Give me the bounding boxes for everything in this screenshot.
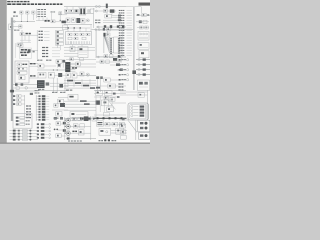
- ignition coil T1: [80, 8, 86, 15]
- lamp row 2: [10, 132, 39, 134]
- label dark: [72, 67, 77, 69]
- fuse f5: [68, 37, 72, 40]
- resistor pack RP1: [38, 72, 46, 78]
- legend separator pair: [133, 7, 134, 90]
- wire main feed: [12, 21, 36, 23]
- pin column line: [145, 105, 147, 119]
- fuse f2: [74, 33, 78, 36]
- wire: [120, 94, 147, 96]
- wire bus: [94, 10, 116, 12]
- motor M2: [64, 124, 70, 128]
- resistor row: [137, 26, 149, 29]
- connector row CN2: [39, 34, 50, 35]
- arrow node: [10, 90, 14, 93]
- wire: [112, 14, 119, 16]
- wire: [103, 22, 121, 24]
- wire: [59, 63, 61, 67]
- pin row P2: [131, 109, 144, 111]
- wire: [70, 132, 91, 134]
- junction block JB2: [66, 32, 92, 45]
- relay RL1: [13, 95, 25, 98]
- switch d: [19, 76, 25, 80]
- mark: [113, 93, 116, 95]
- left gray margin: [0, 0, 7, 143]
- wire: [95, 96, 97, 117]
- wire: [46, 18, 48, 21]
- relay: [118, 58, 122, 61]
- relay box RB1: [138, 32, 149, 41]
- node D: [80, 118, 84, 120]
- wire: [85, 28, 87, 32]
- mark: [60, 117, 63, 120]
- wire: [35, 95, 37, 121]
- wire: [65, 27, 90, 29]
- label dark: [30, 63, 36, 64]
- switch S2: [66, 18, 70, 22]
- mark: [33, 51, 35, 53]
- wire: [61, 135, 70, 137]
- relay K8: [104, 55, 108, 58]
- wire: [24, 35, 26, 40]
- terminal block TB2: [56, 35, 64, 38]
- wire: [20, 14, 22, 22]
- label: [37, 60, 51, 61]
- relay RL3: [13, 103, 25, 106]
- connector: [95, 10, 97, 12]
- wire: [94, 96, 120, 98]
- label dark: [72, 131, 77, 133]
- label: [14, 30, 19, 31]
- wire: [111, 13, 113, 15]
- wire bus: [77, 74, 96, 76]
- relay K7b: [106, 33, 110, 36]
- fuse row T4: [36, 103, 49, 105]
- wire: [147, 90, 149, 120]
- blower resistor R11: [78, 47, 88, 58]
- wire: [13, 87, 38, 89]
- wire: [58, 14, 67, 16]
- enclosure frame: [96, 30, 123, 56]
- terminal block TB3: [56, 39, 64, 42]
- sensor: [108, 84, 116, 88]
- wire: [66, 58, 96, 60]
- label: [38, 89, 44, 90]
- terminal block TB1: [56, 31, 64, 34]
- connector row CN3: [39, 37, 50, 38]
- node E: [87, 118, 91, 120]
- wire: [90, 8, 95, 10]
- label row: [42, 53, 60, 54]
- panel row a: [16, 116, 30, 118]
- relay: [78, 117, 82, 121]
- fan lines: [104, 37, 109, 53]
- sensor: [80, 72, 84, 76]
- wire: [81, 45, 83, 47]
- wire: [135, 120, 137, 140]
- wire: [106, 13, 108, 15]
- pin mark: [103, 28, 105, 31]
- socket row 2: [140, 127, 148, 130]
- label: [22, 64, 27, 65]
- relay K3: [75, 9, 78, 13]
- mark: [58, 64, 60, 67]
- splice segment: [96, 87, 100, 89]
- relay R3: [32, 11, 35, 14]
- pin fan: [70, 63, 75, 71]
- wire: [73, 79, 75, 87]
- wire: [94, 92, 126, 94]
- bus node 4: [115, 117, 117, 119]
- terminal block TB4: [56, 42, 64, 45]
- wire: [26, 14, 28, 22]
- harness diagonal: [128, 120, 138, 133]
- wire: [110, 64, 126, 66]
- lamp row 4: [10, 138, 39, 140]
- wire: [72, 7, 74, 10]
- label dark pair: [45, 20, 50, 22]
- terminal box: [103, 113, 109, 116]
- wire: [52, 78, 54, 92]
- ECU U1: [65, 62, 70, 72]
- wire: [103, 123, 126, 125]
- label row: [42, 50, 60, 51]
- fuse row F11: [37, 127, 51, 129]
- relay K4: [88, 10, 91, 13]
- resistor pack RP2: [48, 72, 54, 78]
- wire: [29, 77, 38, 79]
- wire bus: [66, 138, 96, 140]
- wire: [32, 14, 34, 20]
- capacitor C5: [16, 87, 19, 90]
- lamp row 3: [10, 135, 39, 137]
- mark: [63, 129, 66, 132]
- label battery: [13, 16, 18, 17]
- sensor SN0: [19, 44, 23, 47]
- resistor R4: [59, 12, 62, 14]
- pin mark: [113, 58, 117, 61]
- connector row CN1: [39, 31, 50, 32]
- wire bus: [64, 118, 96, 120]
- legend rows: [26, 105, 31, 118]
- trunk row 2: [136, 63, 150, 65]
- wire: [59, 45, 61, 50]
- bus node 1: [97, 117, 99, 119]
- relay RM3: [119, 122, 124, 126]
- wire: [64, 85, 96, 87]
- relay: [58, 99, 64, 103]
- wire: [20, 39, 31, 41]
- pressure switch S9: [116, 128, 124, 134]
- mark: [54, 117, 57, 120]
- wire: [42, 18, 44, 21]
- fuse f4: [86, 33, 90, 36]
- noise filter NF1: [138, 93, 144, 97]
- wire: [78, 7, 80, 9]
- page bottom shadow: [0, 143, 150, 144]
- bottom gray margin: [0, 143, 150, 150]
- fuse row T8: [36, 114, 49, 116]
- relay R1: [20, 11, 23, 14]
- wire: [62, 63, 64, 67]
- splice: [21, 83, 24, 85]
- wire: [112, 102, 126, 104]
- relay RC0: [70, 58, 73, 61]
- gauge: [86, 73, 89, 76]
- relay: [54, 104, 58, 108]
- gauge: [25, 87, 28, 90]
- wire: [66, 7, 68, 10]
- junction: [27, 21, 28, 22]
- wire: [73, 28, 75, 32]
- wire: [61, 123, 70, 125]
- socket row 3: [140, 134, 148, 137]
- fuse row F14: [37, 137, 51, 139]
- footer text left: [68, 140, 82, 141]
- wire bus: [37, 90, 68, 92]
- label dark: [30, 75, 36, 76]
- junction box J1: [9, 24, 13, 30]
- fuse row T3: [36, 100, 49, 102]
- wire: [32, 49, 39, 51]
- wire: [54, 74, 68, 76]
- wire: [64, 55, 78, 57]
- wire: [24, 34, 38, 36]
- splice segment: [75, 82, 81, 84]
- bus node 3: [109, 117, 111, 119]
- junction block dark: [110, 9, 115, 12]
- title line 1: [7, 1, 29, 2]
- relay RM1: [105, 122, 110, 126]
- bus node 5: [121, 117, 123, 119]
- wire: [126, 6, 141, 8]
- trunk row 1: [136, 58, 150, 60]
- node A: [60, 20, 61, 21]
- relay: [56, 122, 61, 126]
- wire: [64, 109, 96, 111]
- relay K7: [107, 28, 111, 31]
- capacitor C9: [46, 82, 50, 85]
- wire: [64, 103, 96, 105]
- legend rows: [119, 59, 129, 81]
- splice: [74, 27, 76, 29]
- relay: [56, 112, 62, 116]
- fuse row F13: [37, 133, 51, 135]
- wire: [107, 96, 109, 107]
- motor block M4: [68, 94, 78, 100]
- wire: [56, 63, 58, 67]
- wire color table: [37, 9, 46, 19]
- splice block: [116, 63, 120, 66]
- fuse row T9: [36, 116, 49, 118]
- wire: [24, 95, 26, 118]
- thermo switch TS1: [20, 33, 24, 36]
- trunk row 4: [136, 73, 150, 75]
- motor M1: [64, 118, 70, 122]
- wire: [50, 82, 68, 84]
- wire: [111, 129, 127, 131]
- wire bus: [65, 13, 94, 15]
- wire: [36, 20, 44, 22]
- splice: [68, 27, 70, 29]
- wire bus top-left extension: [64, 6, 94, 8]
- power transistor Q1: [37, 80, 45, 88]
- connector CN10: [70, 112, 88, 118]
- wire bus: [13, 84, 38, 86]
- wire: [111, 132, 127, 134]
- wire: [51, 13, 53, 20]
- switch S4: [81, 19, 85, 23]
- table note: [51, 11, 56, 12]
- wire: [96, 61, 122, 63]
- switch a: [17, 63, 21, 66]
- wire: [29, 65, 38, 67]
- wire: [64, 82, 96, 84]
- junction box JB3: [138, 80, 150, 91]
- fuse row T1: [36, 95, 49, 97]
- mark: [119, 118, 128, 120]
- pin hatch: [67, 41, 89, 44]
- pin row P1: [131, 106, 144, 108]
- mark: [62, 60, 65, 63]
- resistor R10: [70, 47, 75, 52]
- wire: [80, 63, 96, 65]
- connector dots: [54, 129, 58, 131]
- resistor R20: [73, 124, 78, 128]
- wire: [93, 8, 95, 28]
- label dark: [26, 33, 31, 35]
- wire: [94, 114, 126, 116]
- wire: [140, 7, 142, 14]
- fusible link FL1: [14, 11, 16, 13]
- relay RL2: [13, 99, 25, 102]
- wire: [103, 97, 105, 112]
- lamp row 1: [10, 129, 39, 131]
- pin row P3: [131, 112, 144, 114]
- sensor SN7: [121, 135, 127, 139]
- capacitor C1: [19, 25, 22, 28]
- splice segment: [90, 87, 95, 89]
- header index tab: [139, 3, 151, 6]
- splice segment: [84, 103, 90, 105]
- terminal: [118, 17, 121, 19]
- wire: [56, 78, 58, 92]
- fuse F2: [106, 4, 108, 9]
- wire: [99, 96, 101, 112]
- mark: [30, 93, 33, 95]
- wire: [70, 119, 91, 121]
- wire: [50, 85, 68, 87]
- wire: [20, 41, 31, 43]
- splice: [80, 27, 82, 29]
- wire: [117, 69, 126, 71]
- footer text mid: [99, 139, 117, 141]
- fuse f6: [74, 37, 78, 40]
- cluster frame: [19, 48, 31, 58]
- switch row c: [17, 71, 27, 74]
- relay: [100, 60, 104, 63]
- label: [66, 90, 72, 91]
- ground bus: [93, 117, 127, 119]
- wire: [89, 79, 91, 87]
- mark: [96, 76, 99, 79]
- wire: [84, 7, 86, 9]
- gauge G1: [86, 19, 89, 22]
- relay box RB2: [138, 43, 149, 50]
- wire: [103, 19, 121, 21]
- connector row CN4: [39, 40, 50, 41]
- diode D2 row: [136, 20, 149, 23]
- fuse f3: [80, 33, 84, 36]
- wire: [110, 79, 126, 81]
- wire: [67, 79, 69, 87]
- pin mark: [118, 55, 121, 58]
- solenoid SL1: [96, 100, 100, 104]
- sensor: [104, 78, 110, 82]
- legend list mid: [119, 32, 132, 56]
- wire bus: [10, 90, 39, 92]
- fuse F1: [13, 21, 15, 23]
- wire bus: [94, 89, 126, 91]
- wire: [66, 12, 68, 15]
- wire: [58, 96, 68, 98]
- fuse row F10: [37, 123, 51, 125]
- terminal: [118, 19, 121, 21]
- pin mark: [104, 25, 106, 28]
- control panel CP1: [13, 114, 32, 129]
- relay small: [104, 96, 108, 99]
- junction: [53, 69, 58, 70]
- wire: [64, 100, 96, 102]
- wire: [96, 85, 126, 87]
- relay K5: [104, 9, 107, 12]
- connector CN8a: [109, 37, 113, 53]
- wire: [64, 87, 96, 89]
- title line 2: [7, 3, 62, 5]
- wire bus: [96, 56, 126, 58]
- label row: [42, 47, 60, 48]
- diode D1 row: [136, 13, 150, 16]
- switch S1: [51, 20, 55, 23]
- wire: [72, 45, 74, 47]
- relay RM2: [112, 122, 118, 126]
- wire: [44, 65, 56, 67]
- connector CN12a: [138, 120, 150, 132]
- wire: [95, 29, 97, 58]
- wire: [64, 117, 66, 140]
- harness diagonal: [108, 100, 115, 109]
- connector CN0: [63, 25, 68, 30]
- splice block: [60, 103, 65, 107]
- left vertical bus: [11, 18, 13, 122]
- mark: [117, 96, 119, 98]
- relay RC2: [72, 73, 77, 78]
- relay box RB3: [139, 51, 149, 58]
- relay RC1: [66, 73, 70, 78]
- wire: [70, 125, 91, 127]
- relay K6: [105, 14, 112, 18]
- fuse row T7: [36, 111, 49, 113]
- fuse f1: [68, 33, 72, 36]
- fuse row T5: [36, 106, 49, 108]
- pin mark: [110, 25, 112, 28]
- wire bus top: [94, 6, 126, 8]
- relay: [56, 134, 61, 138]
- wire: [67, 28, 69, 32]
- fuse row T2: [36, 98, 49, 100]
- splice segment: [83, 85, 89, 87]
- wire: [55, 21, 68, 23]
- connector inner frame: [130, 105, 147, 119]
